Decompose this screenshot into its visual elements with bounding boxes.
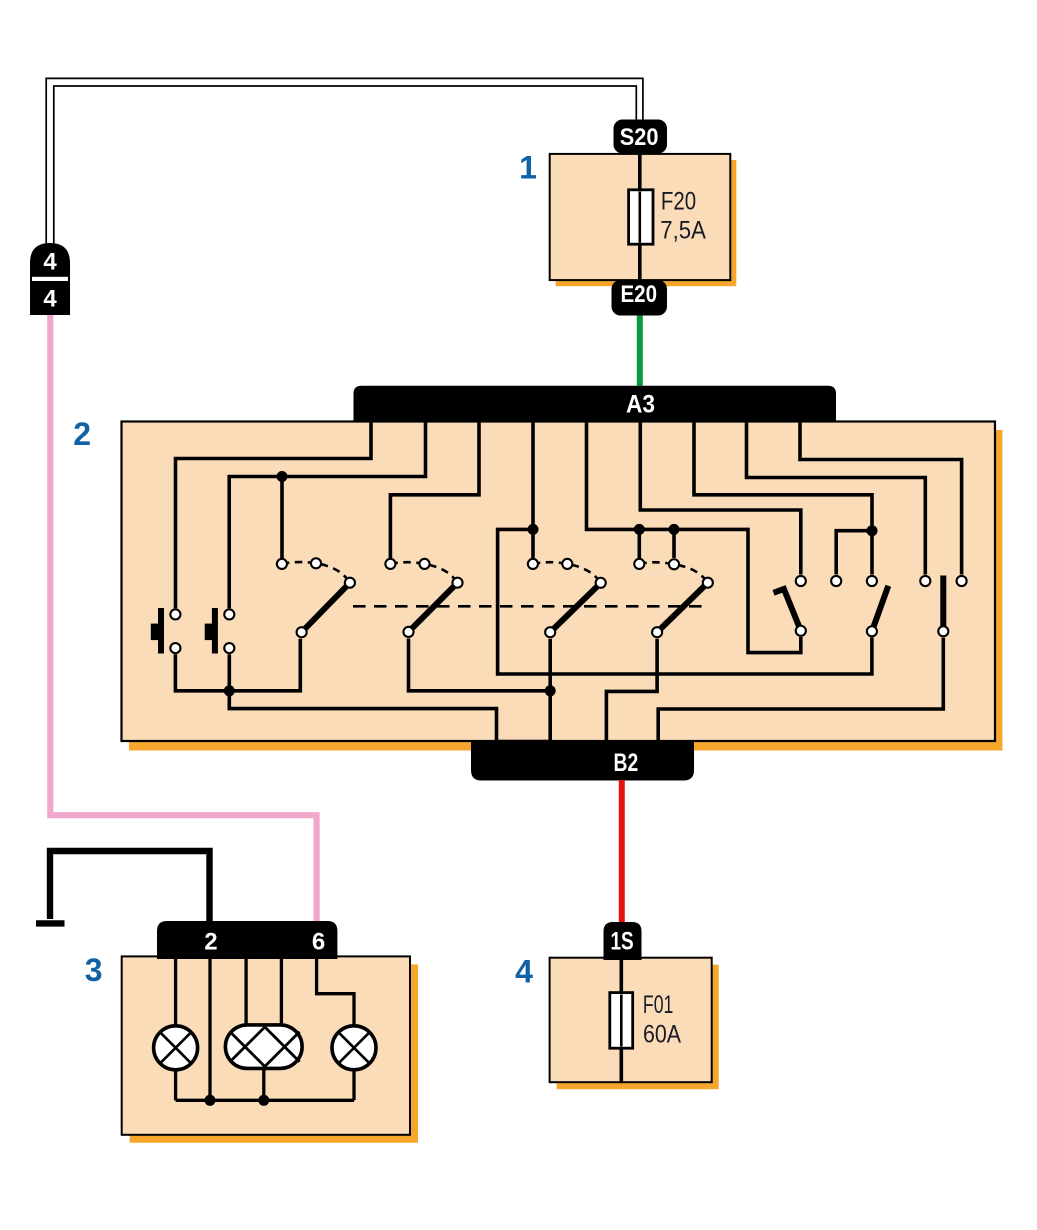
dashed arc switch 1 <box>282 562 350 583</box>
svg-text:3: 3 <box>85 952 103 988</box>
node contact 872 <box>867 525 878 536</box>
wire switch 3 bottom to B2 <box>548 639 552 745</box>
node switch 4 feed b <box>669 524 680 535</box>
dashed arc switch 3 <box>533 562 601 583</box>
box 1 (fuse box F20) <box>550 154 731 280</box>
wire A3 to switch 2 contact <box>390 420 479 558</box>
svg-text:2: 2 <box>73 416 91 452</box>
wire node down to B2 left <box>229 691 552 742</box>
wire through box 1 <box>638 153 642 280</box>
wire lamp 1 bottom <box>174 1070 177 1101</box>
wire pin to lamp 1 <box>174 956 177 1026</box>
node switch 2/3 bottom <box>545 685 556 696</box>
wire pink 4/4 to box 3 <box>50 315 316 921</box>
lever switch 2 <box>409 580 461 632</box>
switch levers <box>302 576 944 633</box>
svg-text:E20: E20 <box>621 281 658 308</box>
svg-text:A3: A3 <box>626 391 655 419</box>
switch 1 contacts <box>277 559 287 569</box>
svg-text:7,5A: 7,5A <box>660 217 706 245</box>
button 2 <box>205 608 218 654</box>
wire branch to switch 1 contact <box>280 477 284 559</box>
svg-text:60A: 60A <box>643 1021 681 1049</box>
node switch 4 feed a <box>634 524 645 535</box>
wire A3 to button 1 <box>176 420 372 608</box>
connector 1S <box>604 922 642 960</box>
wire green E20 to A3 <box>637 316 643 387</box>
bar B2 <box>471 742 694 781</box>
lever switch 6 <box>872 586 888 632</box>
svg-text:F20: F20 <box>661 187 696 215</box>
switch 6 contacts <box>831 576 841 586</box>
button 1 <box>151 608 164 654</box>
lever switch 5 <box>774 589 801 631</box>
svg-text:2: 2 <box>204 929 217 956</box>
wire A3 to switch 5 top contact <box>640 420 801 575</box>
wire red B2 to 1S <box>619 780 625 923</box>
fuse F20 <box>629 190 653 244</box>
contact circles <box>170 558 966 653</box>
wire pin 6 to lamp 3 <box>317 956 354 1026</box>
connector 4/4 <box>30 243 70 315</box>
wire lamp 3 bottom <box>352 1070 355 1101</box>
button 1 contacts <box>170 609 180 619</box>
wire double-line S20 to 4/4 outer <box>46 78 643 252</box>
box 4 shadow <box>557 965 719 1089</box>
switch 3 contacts <box>528 559 538 569</box>
wire double-line S20 to 4/4 inner <box>54 86 637 252</box>
wire through box 4 <box>619 958 623 1082</box>
lever switch 1 <box>302 580 353 632</box>
wire A3 to switch 5 bottom <box>587 420 801 653</box>
wire bottom bus <box>176 1099 354 1102</box>
svg-text:6: 6 <box>312 929 325 956</box>
svg-text:1S: 1S <box>611 928 634 956</box>
wires inside box 2 <box>175 420 961 745</box>
wire pin 2 through <box>208 956 211 1100</box>
lamp L3 <box>332 1026 376 1070</box>
bar A3 <box>354 386 837 422</box>
connector E20 <box>612 280 668 316</box>
wire A3 to switch 3 contact <box>531 420 535 558</box>
wire pins to lamp 2 <box>244 956 247 1028</box>
wire A3 to switch 6 contacts <box>694 420 872 575</box>
box 2 (switch unit) <box>122 422 996 742</box>
wires inside box 3 <box>176 956 354 1100</box>
wire button 2 bottom <box>228 654 232 691</box>
lever switch 7 <box>940 576 946 632</box>
switch 2 contacts <box>385 559 395 569</box>
node buttons common <box>224 685 235 696</box>
svg-text:4: 4 <box>515 954 533 990</box>
box 4 (fuse box F01) <box>550 958 712 1082</box>
junction dots box 2 <box>224 471 878 696</box>
wire black ground to box 3 <box>50 851 210 921</box>
wire branch to switch 4 contact b <box>672 529 676 558</box>
wire node to switch 1 bottom <box>229 639 300 691</box>
wire branch to contact 836 <box>836 531 872 575</box>
wire A3 to switch 7 left contact <box>747 420 926 575</box>
switch 5 contacts <box>796 576 806 586</box>
connector S20 <box>614 120 668 154</box>
dashed arc switch 4 <box>639 562 708 582</box>
box 1 shadow <box>556 160 737 286</box>
svg-text:F01: F01 <box>643 991 674 1019</box>
node lamp bus b <box>258 1095 269 1106</box>
node on switch 3 feed <box>528 524 539 535</box>
wire switch 2 bottom to node <box>409 639 551 691</box>
wire switch 7 bottom to B2 <box>658 638 943 745</box>
switch 4 contacts <box>634 559 644 569</box>
lamp L2 (double) <box>225 1025 302 1069</box>
wire button 1 bottom <box>175 654 229 691</box>
node lamp bus a <box>205 1095 216 1106</box>
lamp L1 <box>154 1026 198 1070</box>
button 2 contacts <box>224 609 234 619</box>
box 3 (lamp unit) <box>122 956 410 1134</box>
connector bar box 3 <box>157 921 337 959</box>
ground <box>36 920 65 926</box>
fuse F01 <box>610 993 633 1049</box>
svg-text:B2: B2 <box>614 749 639 777</box>
svg-text:4: 4 <box>43 249 57 276</box>
wire switch 4 bottom to B2 <box>606 639 657 745</box>
dashed linkage line <box>353 605 703 608</box>
wire A3 to button 2 and switch 1 <box>229 420 425 608</box>
svg-text:4: 4 <box>43 286 57 313</box>
wire A3 to switch 7 right contact <box>800 420 962 575</box>
node on wire to button 2 <box>277 471 288 482</box>
svg-text:1: 1 <box>519 150 537 186</box>
switch 7 contacts <box>920 576 930 586</box>
wire branch from node to switch 6 bottom <box>498 529 872 674</box>
dashed arc switch 2 <box>390 562 457 583</box>
wire lamp 2 bottom <box>262 1068 265 1100</box>
svg-text:S20: S20 <box>620 124 659 151</box>
box 3 shadow <box>130 964 418 1142</box>
wire branch to switch 4 contact a <box>637 529 641 558</box>
box 2 shadow <box>129 430 1003 751</box>
lever switch 4 <box>657 580 710 632</box>
lever switch 3 <box>550 581 603 633</box>
